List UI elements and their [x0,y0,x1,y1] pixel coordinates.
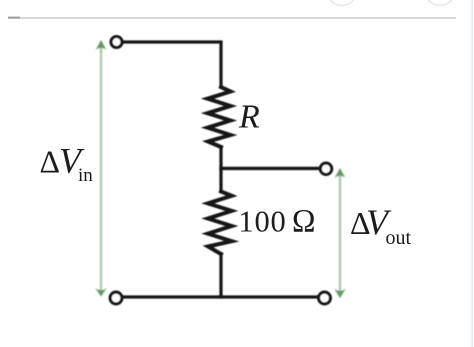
svg-text:Ω: Ω [292,204,316,240]
svg-text:Δ: Δ [40,144,61,180]
svg-text:out: out [386,227,412,249]
svg-text:R: R [238,99,260,136]
svg-text:100: 100 [238,205,286,239]
svg-text:in: in [78,165,93,186]
